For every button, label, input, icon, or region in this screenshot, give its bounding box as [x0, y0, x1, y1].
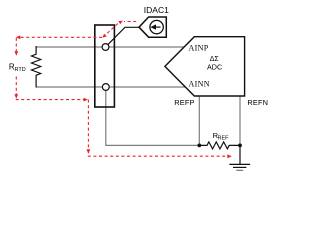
svg-text:AINN: AINN: [189, 80, 210, 89]
svg-text:RTD: RTD: [15, 67, 26, 73]
svg-text:ADC: ADC: [207, 62, 222, 71]
svg-text:REF: REF: [218, 135, 230, 141]
svg-text:AINP: AINP: [189, 43, 209, 52]
svg-text:REFN: REFN: [247, 98, 268, 107]
svg-text:IDAC1: IDAC1: [144, 5, 169, 15]
svg-text:REFP: REFP: [174, 98, 194, 107]
